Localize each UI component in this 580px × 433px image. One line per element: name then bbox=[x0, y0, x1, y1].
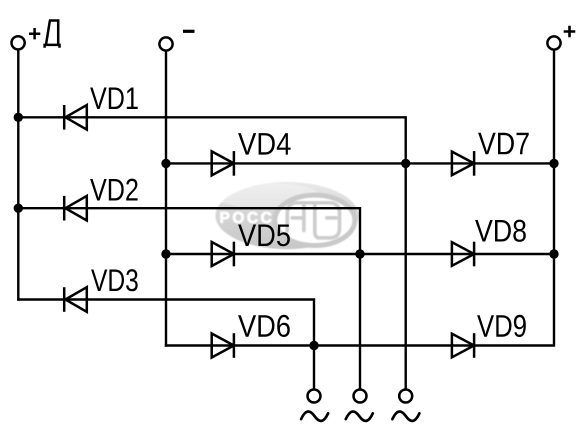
diode VD8 bbox=[452, 242, 474, 267]
label VD8 bbox=[475, 220, 526, 242]
label AC tilde 2 bbox=[346, 411, 373, 420]
terminal AC phase 1 bbox=[308, 390, 321, 403]
wire +Д left column bbox=[17, 49, 19, 300]
diode VD3 bbox=[64, 287, 87, 312]
label minus sign bbox=[183, 30, 195, 33]
diode VD9 bbox=[452, 333, 474, 358]
junction right column / VD7 row bbox=[549, 159, 558, 168]
terminal plus bbox=[547, 36, 560, 49]
junction VD1 leg / VD4-VD7 row bbox=[401, 159, 410, 168]
label AC tilde 1 bbox=[301, 411, 328, 420]
diode VD4 bbox=[212, 151, 234, 176]
diode VD7 bbox=[452, 151, 474, 176]
label VD1 bbox=[90, 88, 138, 110]
wire VD5-VD8 row bbox=[165, 253, 554, 255]
junction left column / VD2 row bbox=[14, 204, 23, 213]
label AC tilde 3 bbox=[392, 411, 419, 420]
diode VD6 bbox=[212, 333, 234, 358]
diode VD1 bbox=[64, 105, 87, 130]
label VD9 bbox=[477, 315, 526, 337]
junction minus column / VD5 row bbox=[161, 249, 170, 258]
wire VD3 row and its drop leg bbox=[17, 300, 314, 390]
label VD4 bbox=[238, 133, 291, 155]
junction left column / VD1 row bbox=[14, 113, 23, 122]
label plus sign bbox=[564, 26, 576, 38]
wire VD6-VD9 row and + right column bbox=[165, 50, 554, 346]
terminal minus bbox=[159, 37, 172, 50]
diode VD2 bbox=[64, 196, 87, 221]
label +Д letter Д bbox=[45, 21, 60, 48]
label VD3 bbox=[91, 269, 138, 291]
label VD7 bbox=[478, 133, 529, 155]
terminal AC phase 2 bbox=[354, 390, 367, 403]
terminal +Д bbox=[12, 36, 25, 49]
label VD5 bbox=[238, 225, 290, 247]
terminal AC phase 3 bbox=[399, 390, 412, 403]
junction right column / VD8 row bbox=[549, 249, 558, 258]
label VD2 bbox=[90, 179, 138, 201]
junction VD3 leg / VD6-VD9 row bbox=[309, 341, 318, 350]
junction minus column / VD4 row bbox=[161, 159, 170, 168]
wire VD4-VD7 row bbox=[165, 162, 554, 164]
wire VD1 row and its drop leg bbox=[17, 117, 406, 389]
label VD6 bbox=[238, 315, 290, 337]
label +Д plus sign bbox=[29, 28, 40, 39]
junction VD2 leg / VD5-VD8 row bbox=[355, 249, 364, 258]
diode VD5 bbox=[212, 242, 234, 267]
wire minus column bbox=[165, 51, 167, 347]
wire VD2 row and its drop leg bbox=[17, 208, 360, 389]
watermark logo РОСС АТЭ bbox=[216, 182, 359, 249]
